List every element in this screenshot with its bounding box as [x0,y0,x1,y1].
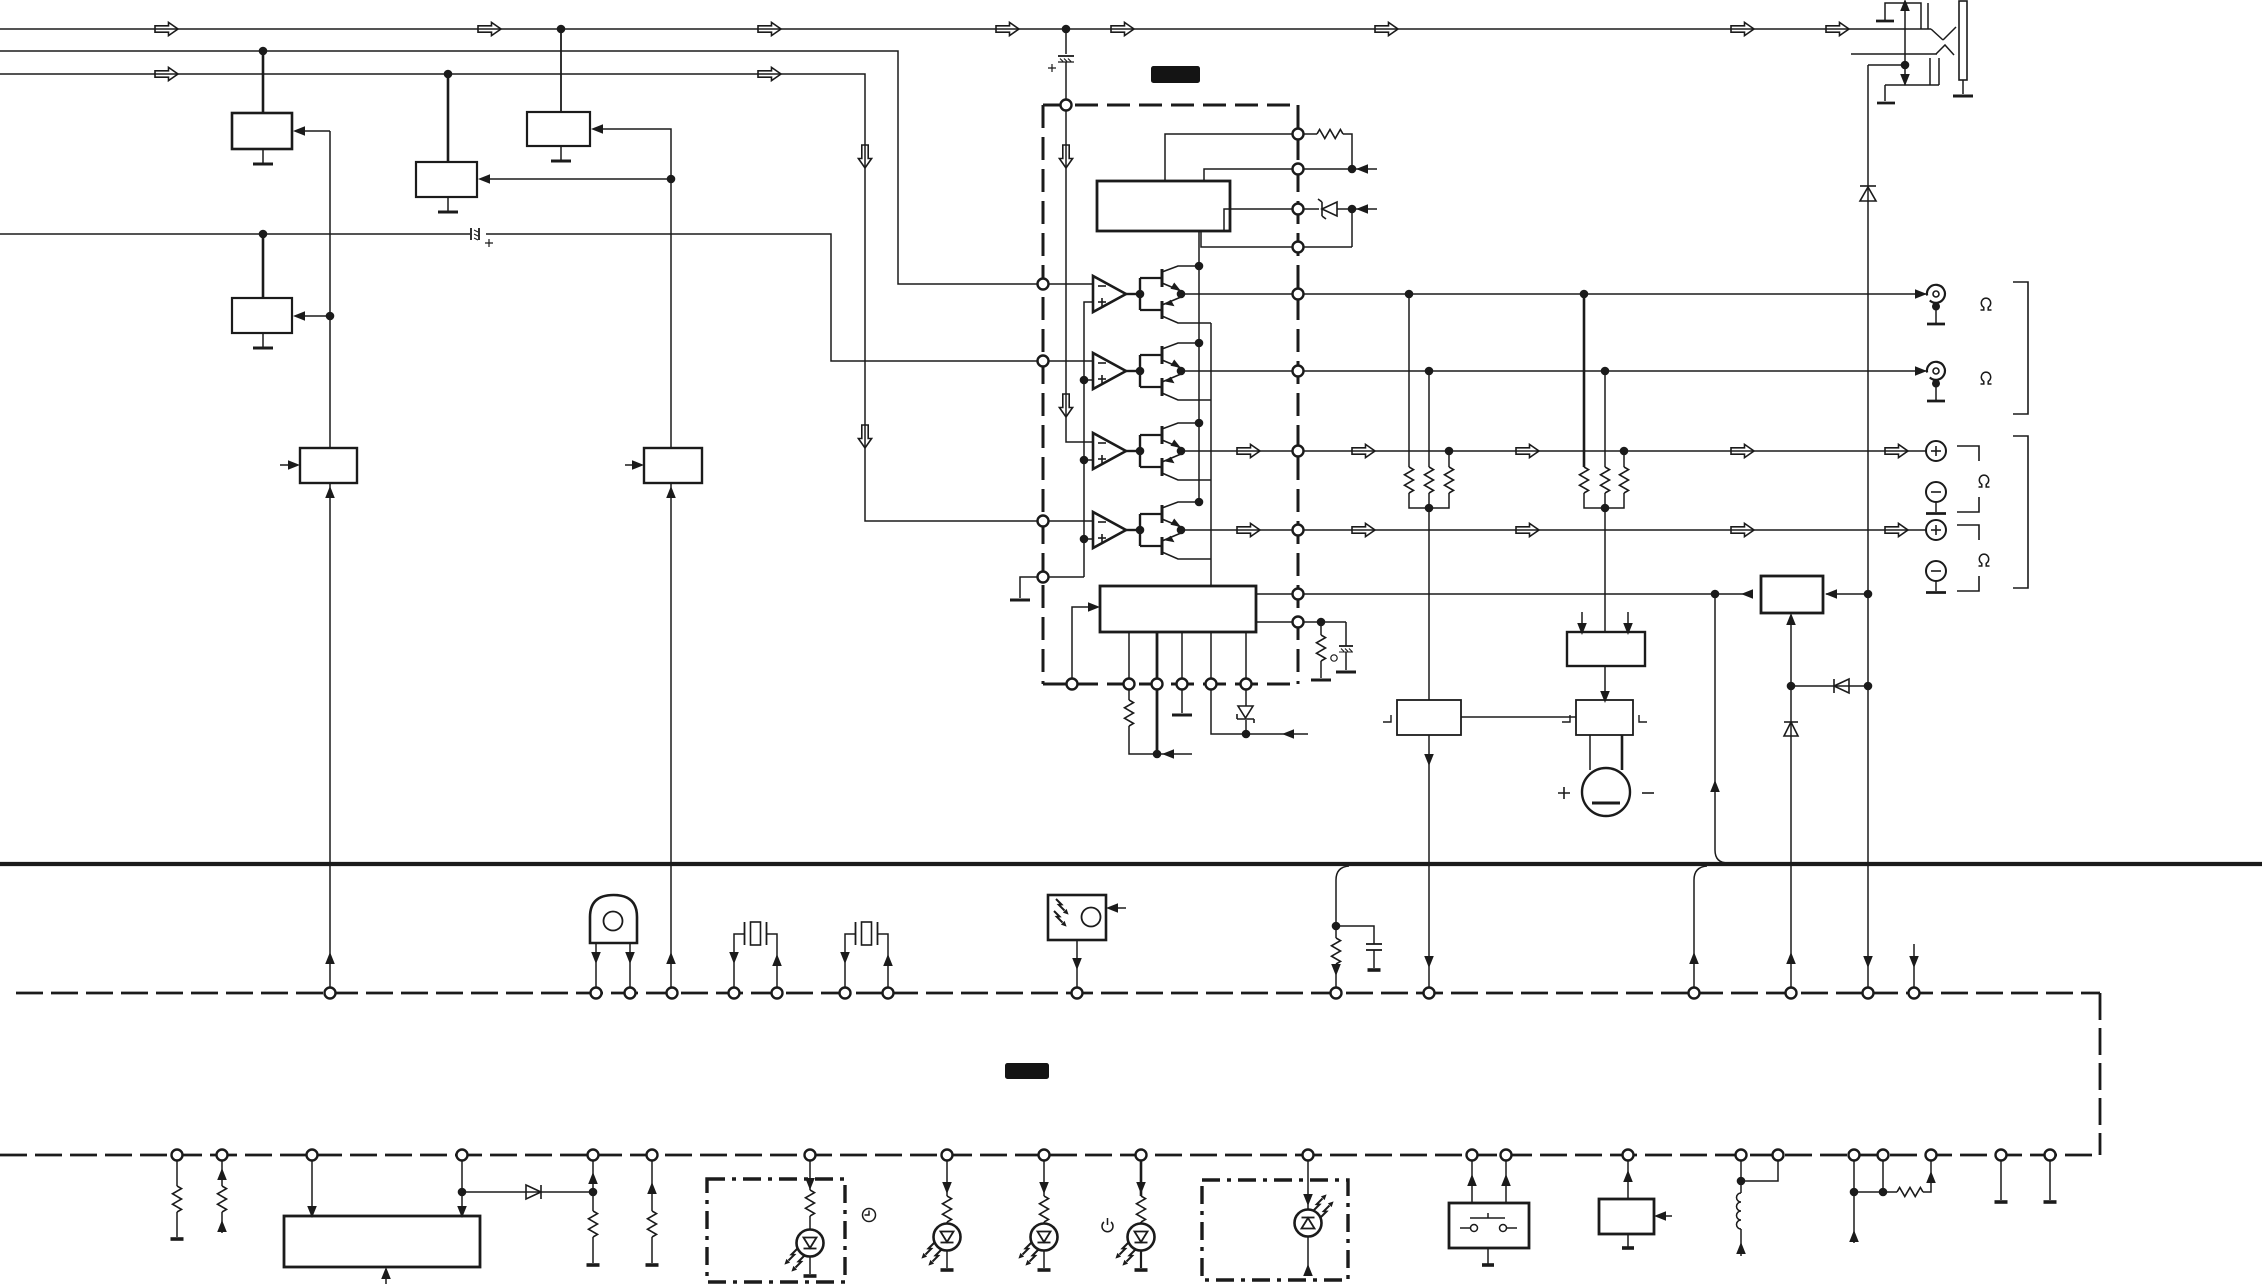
impedance label speaker L [1979,475,1990,487]
junction on line A above box 3 [557,25,566,34]
diode on headphone sense line [1860,186,1876,201]
power LED 4 with resistor (bold) [1140,1155,1143,1196]
ground under box 2 [438,211,458,213]
ground for jack body [1953,95,1973,98]
connector pin (1298,530) [1293,525,1304,536]
V- rail to lower collectors [1210,323,1212,586]
board connector dashed outline right edge [2099,993,2102,1155]
junction on detect vertical [1901,61,1910,70]
relay box L [1397,700,1461,735]
ground under RC capacitor [1336,671,1356,673]
wire protection block to pin 622 [1256,621,1293,623]
junction on line D [259,230,268,239]
polarized capacitor on supply feed [1058,56,1074,62]
wire junction (1352,209) [1348,205,1357,214]
resistor under pin 177 [176,1155,178,1186]
connector pin (672,993) [667,988,678,999]
headphone jack tip contact (line A end with switch break) [1851,3,1956,103]
connector pin (1628,1155) [1623,1150,1634,1161]
speaker terminal R+ [1926,520,1946,540]
connector pin (845,993) [840,988,851,999]
wire bias block to pin (1298,209) [1224,209,1293,231]
filter block box 2 [416,74,477,211]
speaker terminal L+ [1926,441,1946,461]
resistor under pin 652 [651,1155,653,1211]
stub arrow at node 734 [1246,733,1308,735]
junction on line B [259,47,268,56]
connector pin (1043,284) [1038,279,1049,290]
connector pin (1298,594) [1293,589,1304,600]
wire group1 down to relay box L [1428,508,1430,700]
wire junction (1868,594) [1864,590,1873,599]
wire leaving bus down at x1336 [1336,866,1349,926]
wire junction (1336,926) [1332,922,1341,931]
connector pin (1043,361) [1038,356,1049,367]
speaker terminal R- with ground [1926,561,1946,593]
diode below node 686 (pointing up) [1790,686,1792,988]
wire bias block to pin (1298,134) [1165,134,1293,181]
part number label 2 (blacked out) [1005,1063,1049,1079]
snubber resistors group 1 [1405,467,1414,493]
headphone jack body [1953,1,1973,96]
connector pin (1298,169) [1293,164,1304,175]
wire junction (1352,169) [1348,165,1357,174]
headphone jack ring contact (line R with switch break) [1851,53,1937,55]
mute control wire from IC pin 594 [1303,593,1744,595]
arrowhead down on detect vertical [1900,74,1910,86]
bold wire under bottom pin 1157 [1156,690,1159,754]
wire group2 down to detector box [1604,508,1606,632]
snubber resistor group 2 taps [1584,294,1624,467]
connector pin (1506,1155) [1501,1150,1512,1161]
link wire between relay box L and motor driver box [1461,716,1576,718]
wire protection block to pin 594 [1256,593,1293,595]
wire junction (1084,460) [1080,456,1089,465]
connector pin (1298,294) [1293,289,1304,300]
input arrow into box 6 [280,464,296,466]
ground stub under pin 2050 [2049,1155,2051,1200]
connector pin (1072,684) [1067,679,1078,690]
junction on line C [444,70,453,79]
ground under aux box [1627,1234,1629,1247]
connector pin (947,1155) [942,1150,953,1161]
control arrow into box 3 [594,129,671,179]
wire mute net down to bus [1715,594,1728,863]
connector pin (312,1155) [307,1150,318,1161]
resistor under pin 222 [221,1155,223,1186]
op-amp A4 with push-pull pair [1093,498,1211,559]
stub arrow at node 754 [1157,753,1192,755]
wire junction (1605,508) [1601,504,1610,513]
down arrow into connector from headphone sense [1863,956,1873,968]
connector pin (1778,1155) [1773,1150,1784,1161]
power detect feedback diode network [1791,623,1868,686]
bias ground pin wire [1020,577,1084,598]
headphone sense line (long vertical) [1867,65,1869,988]
connector pin (2050,1155) [2045,1150,2056,1161]
signal flow arrows (down) on vertical of line C [858,145,871,168]
arrow up into display block bottom [385,1269,387,1284]
connector pin (1472,1155) [1467,1150,1478,1161]
wire bias block to pin (1298,169) [1204,169,1293,181]
external network under bottom pin 1129 [1129,690,1157,754]
wire from headphone sense to power detect box [1826,593,1868,595]
control vertical wire x330 [329,131,331,448]
wire inverting input A2 [1049,360,1093,362]
IR emitter LED [1307,1155,1309,1210]
wire junction (1084,539) [1080,535,1089,544]
connector pin (1854,1155) [1849,1150,1860,1161]
ground under switch box [1487,1248,1489,1264]
regulator box 6 [300,448,357,483]
timer LED with resistor [809,1155,811,1190]
connector pin (630,993) [625,988,636,999]
wire pin 462 into display block with branch [461,1155,463,1214]
connector pin (1791,993) [1786,988,1797,999]
wire junction (1584,294) [1580,290,1589,299]
wire bus line C [0,74,1037,521]
resistor under pin 593 [592,1155,594,1211]
connector pin (1429,993) [1424,988,1435,999]
wire inverting input A1 [1049,283,1093,285]
diode from node 462 to node 593 [462,1191,593,1193]
connector pin (1298,371) [1293,366,1304,377]
power switch box [1449,1203,1529,1248]
ground under box 1 [253,163,273,165]
ground at bias pin [1010,599,1030,601]
wire leaving bus down-left at x1694 [1694,866,1707,988]
clock icon [863,1209,876,1222]
connector pin (1931,1155) [1926,1150,1937,1161]
V+ rail to upper collectors [1198,231,1200,502]
connector pin (1129,684) [1124,679,1135,690]
connector pin (1141,1155) [1136,1150,1147,1161]
series capacitor on line D [471,228,479,240]
wire junction (1246,734) [1242,730,1251,739]
line out L wire (row 295) [1303,293,1927,295]
op-amp A3 with push-pull pair [1093,419,1211,480]
wire below node 1854 [1853,1192,1855,1243]
connector pin (2001,1155) [1996,1150,2007,1161]
regulator box 7 [644,448,702,483]
bias block inside IC [1097,181,1230,231]
ground stub under pin 2001 [2000,1155,2002,1200]
wires protection block to bottom pins [1128,632,1130,679]
speaker R bracket pair [1957,525,1979,591]
supply feed from line A to IC top pin [1062,25,1071,34]
bracket for speaker outputs [2013,436,2028,588]
power icon [1102,1218,1113,1232]
resistor to connector pin x1336 [1335,926,1337,938]
motor (battery style circle) [1582,735,1630,816]
op-amp A2 with push-pull pair [1093,339,1211,400]
connector pin (888,993) [883,988,894,999]
op-amp A1 with push-pull pair [1093,262,1211,323]
display block box [284,1216,480,1267]
board connector dashed outline bottom edge [0,1154,2100,1157]
crystal X2 [845,922,888,949]
wire junction (1449,451) [1445,447,1454,456]
connector pin (1077,993) [1072,988,1083,999]
control arrow into box 2 [481,178,671,180]
wire bias block to pin (1298,247) [1201,231,1293,247]
crystal X1 [734,922,777,949]
connector pin (1044,1155) [1039,1150,1050,1161]
impedance label L [1981,298,1992,310]
wire junction (1741,1181) [1737,1177,1746,1186]
wire bus line A (top signal line) [0,28,1931,30]
IR module output wire to connector [1076,940,1078,988]
power detect box [1761,576,1823,613]
impedance label R [1981,372,1992,384]
wire junction (462,1192) [458,1188,467,1197]
wire junction (1854,1192) [1850,1188,1859,1197]
wire pin 312 into display block [311,1155,313,1214]
speaker L+ wire (row 451) [1303,450,1926,452]
signal flow arrows on line A [155,22,178,35]
wire junction (1084,380) [1080,376,1089,385]
IR remote receiver module [1048,895,1106,940]
connector pin (1298,622) [1293,617,1304,628]
speaker L bracket pair [1957,446,1979,512]
wire junction (1791,686) [1787,682,1796,691]
thick power bus wire [0,862,2262,866]
supply wire from connector up to box 7 [670,483,672,988]
wire relay box L down to connector [1428,735,1430,988]
wire under bottom pin 1211 [1211,690,1246,734]
external RC at pin 622 [1303,622,1346,678]
wire bus line B [0,51,1037,284]
stub wire with down arrow at x1914 [1913,944,1915,988]
IR emitter dash-dot box [1202,1180,1348,1280]
zener under bottom pin 1246 [1245,690,1247,706]
line out R wire (row 371) [1303,370,1927,372]
connector pin (1914,993) [1909,988,1920,999]
wire junction (1157,754) [1153,750,1162,759]
ground under box 3 [551,160,571,162]
IR sensor dome (headphone detect sensor) [590,895,637,988]
feedback rail to non-inverting inputs [1084,302,1093,577]
wire junction (1883,1192) [1879,1188,1888,1197]
connector pin (1336,993) [1331,988,1342,999]
connector pin (777,993) [772,988,783,999]
supply wire from connector up to box 6 [329,483,331,988]
connector pins on top dashed edge [325,988,336,999]
connector pin (734,993) [729,988,740,999]
connector pin (1298,247) [1293,242,1304,253]
junction at node of control net [667,175,676,184]
ground under bottom pin 1182 [1181,690,1183,713]
RCA jack L [1927,285,1945,324]
detector box with input arrows [1567,632,1645,666]
resistor network pins 1854/1883/1931 [1853,1155,1855,1192]
connector pin (593,1155) [588,1150,599,1161]
external zener between pin 209 and pin 247 [1303,208,1319,210]
ground under RC resistor [1311,679,1331,681]
wire junction (1321,622) [1317,618,1326,627]
output wire A4 to pin [1181,529,1293,531]
LED 3 with resistor [1043,1155,1045,1196]
switch leads to connector [1471,1155,1473,1203]
connector pin (1157,684) [1152,679,1163,690]
connector pin (1694,993) [1689,988,1700,999]
wire junction (1868,686) [1864,682,1873,691]
headphone jack upper contact frame [1885,3,1921,29]
power amp IC U1 dashed outline [1043,105,1298,684]
wire detector box to motor driver box [1604,666,1606,693]
connector pins on bottom dashed edge [172,1150,183,1161]
timer LED dash-dot box [707,1179,845,1282]
connector pin (1883,1155) [1878,1150,1889,1161]
output wire A3 to pin [1181,450,1293,452]
diode in feedback (pointing left) [1834,679,1849,693]
connector pin (652,1155) [647,1150,658,1161]
wire from detect contact to headphone sense line [1868,64,1905,66]
output wire A2 to pin [1181,370,1293,372]
input arrow into box 7 [625,464,640,466]
wire junction (1605,371) [1601,367,1610,376]
part number label (blacked out) [1151,66,1200,83]
wire junction (1429,508) [1425,504,1434,513]
bracket for line outputs [2013,282,2028,414]
RCA jack R [1927,362,1945,401]
connector pin (1182,684) [1177,679,1188,690]
headphone jack lower contact frame [1885,58,1939,85]
connector pin (1211,684) [1206,679,1217,690]
connector pin (1868,993) [1863,988,1874,999]
wire bus line D [0,234,1037,361]
protection block inside IC [1100,586,1256,632]
connector pin (1043,577) [1038,572,1049,583]
control arrow into box 5 [296,315,330,317]
filter block box 5 [232,234,292,347]
speaker terminal L- with ground [1926,482,1946,514]
junction on x330 [326,312,335,321]
connector pin (462,1155) [457,1150,468,1161]
connector pin (1308,1155) [1303,1150,1314,1161]
IC pins [1061,100,1072,111]
inductor under pins 1741/1778 [1740,1155,1742,1193]
control arrow into IR module [1109,907,1126,909]
wire junction (1429,371) [1425,367,1434,376]
wire junction (1409,294) [1405,290,1414,299]
speaker R+ wire (row 530) [1303,529,1926,531]
control arrow into box 1 [296,130,330,132]
snubber resistors group 2 [1580,467,1589,493]
connector pin (810,1155) [805,1150,816,1161]
external resistor between pin 134 and pin 169 [1303,133,1317,135]
signal flow arrows on line C [155,67,178,80]
wire junction (1624,451) [1620,447,1629,456]
snubber resistor group 1 taps [1409,294,1449,467]
connector pin (1043,521) [1038,516,1049,527]
output wire A1 to pin [1181,293,1293,295]
connector pin (1298,134) [1293,129,1304,140]
LED 2 with resistor [946,1155,948,1196]
wire pin1072 into protection block [1072,607,1092,679]
wire junction (593,1192) [589,1188,598,1197]
filter block box 1 [232,51,292,163]
motor driver box [1576,700,1633,735]
mute line inside IC from top pin to amp3 [1066,110,1092,442]
connector pin (1741,1155) [1736,1150,1747,1161]
connector pin (596,993) [591,988,602,999]
arrowhead up on detect vertical [1900,0,1910,11]
wire junction (1715,594) [1711,590,1720,599]
connector pin (222,1155) [217,1150,228,1161]
impedance label speaker R [1979,554,1990,566]
aux box with control arrow [1599,1199,1654,1234]
connector pin (1246,684) [1241,679,1252,690]
connector pin (1298,451) [1293,446,1304,457]
control vertical wire x671 [670,179,672,448]
filter block box 3 [527,29,590,160]
connector pin (1298,209) [1293,204,1304,215]
ground for lower contact [1877,102,1895,105]
ground under box 5 [253,347,273,349]
capacitor branch at node 926 [1336,926,1374,968]
headphone jack detect contact vertical [1904,3,1906,85]
ground for upper contact [1876,20,1894,23]
wire inverting input A4 [1049,520,1093,522]
board connector dashed outline top edge [16,992,2100,995]
